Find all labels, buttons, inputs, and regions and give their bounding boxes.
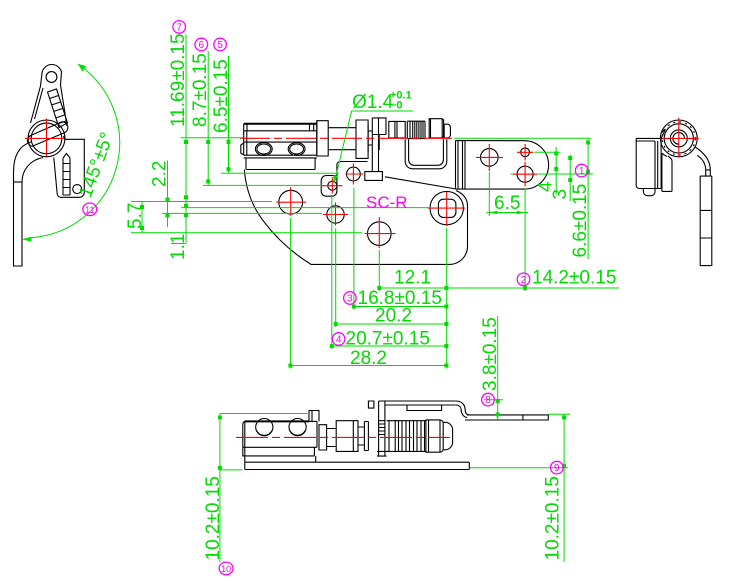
RIGHTVIEW xyxy=(636,118,712,266)
barrel tube xyxy=(328,128,356,150)
svg-text:3: 3 xyxy=(550,189,571,200)
dim row 12.1 14.2 xyxy=(379,287,619,289)
dim line 2.2 xyxy=(167,160,169,227)
left view leg outer xyxy=(14,142,44,266)
leaf left bump xyxy=(241,143,244,155)
dim 3.8 xyxy=(484,316,503,420)
right ext 151.7 xyxy=(535,151,561,153)
leaf rows xyxy=(244,131,317,170)
dim 3 xyxy=(569,155,571,201)
chain ext verticals xyxy=(290,188,446,369)
bottom left block xyxy=(245,420,310,422)
arc arrow top xyxy=(78,64,86,72)
svg-text:11.69±0.15: 11.69±0.15 xyxy=(168,33,189,127)
left view bracket serration xyxy=(63,154,70,196)
wing hole small xyxy=(521,148,530,157)
dim 4 xyxy=(555,147,557,195)
ext line centerline level xyxy=(181,137,244,139)
right view barrel circles xyxy=(660,120,697,157)
balloon 9 xyxy=(551,461,564,474)
bottom end cap xyxy=(426,420,443,452)
dim line 5.7 xyxy=(141,202,143,233)
svg-text:6.5±0.15: 6.5±0.15 xyxy=(211,59,232,133)
svg-text:1: 1 xyxy=(579,166,585,177)
crosshair C xyxy=(365,217,396,248)
balloon 3 xyxy=(344,292,357,305)
spring coils top view xyxy=(407,121,425,138)
wing hole big xyxy=(517,166,533,182)
ext line holeA level xyxy=(131,201,272,203)
bottom upright bar xyxy=(377,401,387,456)
svg-text:6: 6 xyxy=(199,40,205,51)
hole B xyxy=(327,206,344,223)
left view pivot crosshair xyxy=(25,119,65,157)
svg-text:14.2±0.15: 14.2±0.15 xyxy=(532,268,616,289)
svg-text:2: 2 xyxy=(521,275,527,286)
right view knurl ticks xyxy=(662,122,695,155)
ext line holeB level xyxy=(162,212,322,214)
crosshair wing left xyxy=(476,144,503,171)
plate top edge mid xyxy=(337,161,368,171)
balloon 4 xyxy=(332,333,345,346)
spring holder block xyxy=(389,121,405,137)
crosshair wing big xyxy=(513,162,538,187)
svg-text:Ø1.4: Ø1.4 xyxy=(352,92,394,113)
plate bump around small hole xyxy=(321,171,337,196)
left view arm hole xyxy=(46,72,57,83)
cap nose xyxy=(444,124,450,138)
hole A xyxy=(279,190,303,214)
svg-text:8.7±0.15: 8.7±0.15 xyxy=(190,53,211,127)
hole small dia1.4 xyxy=(328,181,337,190)
bottom centerline red xyxy=(236,436,450,438)
svg-text:6.5: 6.5 xyxy=(494,193,520,214)
dim line 8.7 xyxy=(207,51,209,185)
svg-text:10.2±0.15: 10.2±0.15 xyxy=(543,476,564,560)
ext line holeD level xyxy=(181,207,430,209)
plate diagonal edge xyxy=(385,177,456,189)
left view pivot inner circle xyxy=(31,123,62,154)
ext line holeE level xyxy=(221,172,339,174)
svg-text:5: 5 xyxy=(217,40,223,51)
bottom shaft neck2 xyxy=(358,422,368,451)
svg-text:2.2: 2.2 xyxy=(150,161,171,187)
right ext 138 xyxy=(454,137,591,139)
bottom shaft neck xyxy=(327,429,337,447)
balloon 11 xyxy=(83,203,97,216)
LEFTVIEW xyxy=(14,64,120,266)
hole C xyxy=(368,222,392,246)
dim row 20.7 xyxy=(330,345,449,347)
left view leg joint line xyxy=(14,181,23,183)
leaf oval hole 1 xyxy=(255,143,272,156)
svg-text:11: 11 xyxy=(85,205,94,215)
svg-text:10.2±0.15: 10.2±0.15 xyxy=(203,476,224,560)
balloon 8 xyxy=(482,393,495,406)
svg-text:SC-R: SC-R xyxy=(366,193,408,212)
dim row 20.2 xyxy=(334,323,449,325)
bottom shaft collar xyxy=(319,425,327,450)
hole E xyxy=(347,167,361,181)
svg-text:−0: −0 xyxy=(390,100,403,112)
leaf top pin band xyxy=(247,124,314,131)
svg-text:5.7: 5.7 xyxy=(125,203,146,229)
svg-text:1.1: 1.1 xyxy=(168,234,189,260)
DIMS xyxy=(125,33,619,562)
dim 6.6 xyxy=(587,139,589,259)
leaf block outer xyxy=(244,123,317,125)
right view leg lower xyxy=(700,176,712,266)
wing bend lines xyxy=(456,141,466,190)
bottom strips xyxy=(243,447,469,469)
main plate outline xyxy=(244,170,467,265)
dim row 28.2 xyxy=(289,365,449,367)
tick below 1.1 xyxy=(171,243,185,245)
svg-text:28.2: 28.2 xyxy=(350,348,387,369)
bottom shaft block xyxy=(336,421,358,452)
right view leg xyxy=(695,147,712,176)
bottom tab xyxy=(309,411,319,422)
crosshair dia1.4 xyxy=(322,177,343,193)
bottom pin 2 xyxy=(289,419,306,436)
svg-text:12.1: 12.1 xyxy=(394,268,431,289)
balloon 5 xyxy=(214,38,227,51)
barrel neck xyxy=(368,125,372,152)
svg-text:8: 8 xyxy=(485,395,491,406)
dim 10.2 right xyxy=(470,414,570,562)
balloon 2 xyxy=(517,273,530,286)
bracket foot xyxy=(365,172,383,181)
bottom wing xyxy=(465,415,548,420)
left view arm serration rungs xyxy=(50,96,67,125)
bottom z bend xyxy=(456,401,470,418)
svg-text:6.6±0.15: 6.6±0.15 xyxy=(570,184,591,258)
dim row 16.8 xyxy=(352,306,449,308)
bottom cap nose xyxy=(443,422,452,450)
dimension arc 145 xyxy=(31,64,120,238)
BOTTOMVIEW xyxy=(236,401,548,470)
left view arm serration band xyxy=(48,89,68,128)
crosshair B xyxy=(323,203,348,226)
left view pivot outer circle xyxy=(28,120,65,157)
balloon 10 xyxy=(219,562,233,575)
hole D hex xyxy=(430,191,463,224)
barrel block 1 xyxy=(317,121,328,156)
right view neck top xyxy=(661,130,665,139)
left view pivot slot xyxy=(27,122,67,147)
svg-text:7: 7 xyxy=(176,23,182,34)
bottom spring plate xyxy=(387,420,396,452)
dim line 6.5v xyxy=(228,56,230,173)
crosshair E xyxy=(346,164,364,185)
bottom pin 1 xyxy=(256,419,273,436)
MAINVIEW xyxy=(240,118,549,265)
svg-text:20.7±0.15: 20.7±0.15 xyxy=(346,329,430,350)
left view bracket hole xyxy=(73,185,82,194)
bottom upright top block xyxy=(368,401,374,408)
svg-text:3: 3 xyxy=(347,294,353,305)
spring end cap xyxy=(429,119,443,138)
bracket upright bars xyxy=(372,118,386,172)
ext line dia14 level xyxy=(203,184,322,186)
dim 6.5 wing xyxy=(487,172,529,291)
arc arrow bottom xyxy=(22,237,32,242)
crosshair D xyxy=(428,192,466,227)
right ext 173.5 xyxy=(511,173,594,175)
svg-text:9: 9 xyxy=(554,463,560,474)
svg-text:20.2: 20.2 xyxy=(375,306,412,327)
crosshair wing small xyxy=(517,144,534,161)
dim line 11.69 xyxy=(185,34,187,244)
balloon 7 xyxy=(173,21,186,34)
svg-text:4: 4 xyxy=(336,335,342,346)
left view arm (open lever) xyxy=(31,64,68,126)
leaf oval hole 2 xyxy=(288,143,305,156)
latch loop outer xyxy=(405,139,447,169)
svg-text:3.8±0.15: 3.8±0.15 xyxy=(480,317,501,391)
latch loop inner xyxy=(409,139,444,165)
left view lower bracket xyxy=(54,136,85,197)
svg-text:10: 10 xyxy=(221,564,231,574)
balloon 1 xyxy=(575,164,588,177)
right view crosshair xyxy=(659,118,699,157)
ext line holeC level xyxy=(131,232,362,234)
barrel block 2 xyxy=(356,120,368,158)
main centerline red xyxy=(240,137,452,139)
balloon 6 xyxy=(195,38,208,51)
bottom coils xyxy=(395,421,426,452)
bottom bracket top plate xyxy=(385,401,456,411)
crosshair A xyxy=(277,187,307,216)
dim 10.2 left xyxy=(220,414,309,563)
right view mid strip xyxy=(662,153,672,191)
wing plate xyxy=(456,141,549,190)
right view block bottom tab xyxy=(643,189,655,196)
BALLOONS xyxy=(83,21,588,575)
right view block xyxy=(636,138,661,188)
left view arm inner line xyxy=(35,88,44,119)
wing hole left xyxy=(481,149,499,167)
